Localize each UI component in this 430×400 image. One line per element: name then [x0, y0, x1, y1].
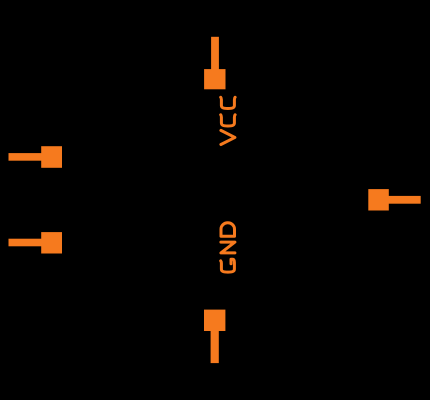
pin left 1: pad [41, 146, 62, 168]
glyph N [221, 242, 235, 253]
pin left 2: wire [9, 239, 52, 247]
pin right: wire [379, 196, 421, 204]
pin name VCC (rotated -90, stroke-font style) [221, 97, 235, 144]
glyph C (top) [221, 97, 235, 108]
pin left 2: pad [41, 232, 62, 253]
glyph G [221, 259, 235, 272]
pin left 1: wire [9, 153, 52, 161]
pin right: pad [368, 189, 389, 210]
glyph V [221, 130, 235, 144]
glyph C (middle) [221, 115, 235, 126]
pin GND (bottom): wire [211, 321, 219, 364]
pin name GND (rotated -90, stroke-font style) [221, 223, 235, 272]
pin VCC (top): wire [211, 37, 219, 79]
glyph D [221, 223, 235, 237]
pin GND (bottom): pad [204, 310, 225, 331]
pin VCC (top): pad [204, 69, 225, 89]
